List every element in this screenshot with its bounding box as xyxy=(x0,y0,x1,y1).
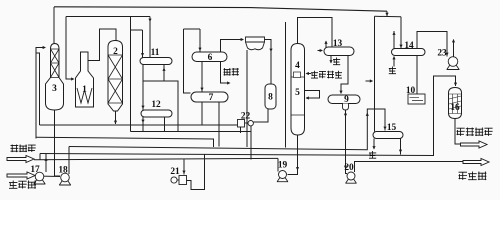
svg-text:21: 21 xyxy=(170,167,180,177)
wire column 5 bottom to pump 19 xyxy=(288,135,298,175)
wire pump 23 discharge xyxy=(453,40,455,57)
wire pump 19 discharge xyxy=(277,160,279,171)
arrowhead into exchanger 11 top xyxy=(141,53,144,56)
arrowhead steam into column xyxy=(306,72,309,75)
svg-text:11: 11 xyxy=(151,48,160,58)
text 蜡出油 xyxy=(459,172,487,181)
furnace 1 (flask with coil) xyxy=(76,52,94,107)
wire waste gas branch xyxy=(221,62,230,84)
wire raw wax suction manifold xyxy=(35,175,60,178)
wire filter 16 outlet to product xyxy=(455,118,461,144)
wire main top line from column 3 overhead xyxy=(54,7,387,11)
text 汽提蒸汽 xyxy=(311,71,342,79)
wire header y131.5 xyxy=(131,131,252,133)
svg-text:1: 1 xyxy=(82,85,87,95)
hollow arrow make-up hydrogen inlet xyxy=(7,156,34,163)
wire drum 13 to drum 9 xyxy=(341,56,348,94)
wire riser from exchanger 11 to y16.5 xyxy=(149,17,151,58)
arrowhead drum 14 vent xyxy=(392,32,395,35)
arrowhead into drum 6 xyxy=(198,48,201,51)
svg-text:20: 20 xyxy=(344,163,354,173)
wire furnace 1 to reactor 2 transfer xyxy=(88,29,116,61)
vessel 8 xyxy=(265,84,276,109)
wire stripping steam inlet xyxy=(307,73,312,75)
arrowhead water into 14 xyxy=(392,56,395,59)
clay filter 16 xyxy=(449,88,462,119)
wire exchanger 12 bottom drop x143 xyxy=(142,117,144,132)
svg-text:22: 22 xyxy=(241,112,251,122)
wire reactor 2 bottom outlet xyxy=(115,111,117,124)
svg-text:16: 16 xyxy=(450,103,460,113)
text 水 below drum 14 xyxy=(389,67,396,75)
arrowhead drum 13 vent xyxy=(324,41,327,44)
arrowhead up on loop x367 xyxy=(366,113,369,116)
wire pump 20 discharge to distillate xyxy=(355,162,464,173)
svg-text:14: 14 xyxy=(404,41,414,51)
arrowhead into pump 23 xyxy=(445,53,448,56)
arrowhead into reactor 2 xyxy=(114,40,117,43)
svg-text:19: 19 xyxy=(278,161,288,171)
stripper column 4/5 xyxy=(291,44,305,136)
wire drum 13 left inlet stub xyxy=(318,50,323,52)
arrowhead down on x387 drop xyxy=(385,13,388,16)
arrowhead on drum 9 drop xyxy=(344,114,347,117)
arrowhead into water separator 15 xyxy=(383,127,386,130)
text 废气 xyxy=(224,68,239,76)
wire feed branch x39.5 xyxy=(36,53,40,125)
arrowhead into drum 13 xyxy=(320,49,323,52)
drum 13 xyxy=(324,47,354,56)
wire drop to water separator 15 xyxy=(374,16,376,131)
wire catchpot bottom drop xyxy=(246,50,248,147)
drum 9 xyxy=(328,95,360,104)
arrowhead water below 15 xyxy=(372,146,375,149)
arrowhead pump 17 riser xyxy=(44,158,47,161)
wire exchanger 11 bottom stub x164 xyxy=(163,65,165,82)
wire drum 9 boot drop to pump 20 xyxy=(346,110,348,174)
wire header y125 xyxy=(40,124,240,126)
arrowhead into column 3 xyxy=(43,46,46,49)
svg-text:6: 6 xyxy=(208,53,213,63)
wire preheat line V1-HX11 y16.5 xyxy=(66,16,150,18)
wire long vertical x285.5 xyxy=(285,22,287,148)
arrowhead side loop into column xyxy=(306,96,309,99)
hollow arrow distillate oil outlet xyxy=(463,159,489,166)
wire product header B xyxy=(40,76,456,156)
wire stub into water line xyxy=(366,80,373,82)
wire drum 14 loop to pump 23 xyxy=(417,32,447,57)
drum 7 xyxy=(191,92,228,102)
pump 23 xyxy=(447,57,460,70)
wire column 3 overhead riser xyxy=(53,7,55,44)
arrowhead into valve 21 xyxy=(182,171,185,174)
arrowhead waste gas outlet xyxy=(227,81,230,84)
valve 22 (letdown) xyxy=(238,120,254,128)
pump 17 xyxy=(34,172,46,184)
wire loop over exchanger 11 xyxy=(130,17,132,31)
svg-text:17: 17 xyxy=(30,165,40,175)
wire drum 7 bottom drop xyxy=(218,102,220,147)
drum 9 water boot xyxy=(343,104,349,111)
wire drop into separator 14 xyxy=(400,17,402,48)
text 补充氢 xyxy=(11,145,36,153)
wire header B left elbow to H2 line xyxy=(39,154,41,160)
text 原料蜡 xyxy=(9,181,36,189)
arrowhead into drum 7 xyxy=(200,88,203,91)
pump 19 xyxy=(277,171,288,182)
arrowhead into filter 16 xyxy=(454,83,457,86)
arrowhead up into exchanger 11 bottom xyxy=(162,68,165,71)
arrowhead on riser x150 xyxy=(148,19,151,22)
wire exchanger 11 to exchanger 12 xyxy=(142,65,144,111)
wire left leg down to header y131 xyxy=(130,30,132,132)
exchanger 11 xyxy=(140,58,172,65)
wire drum 7 bottom drop2 xyxy=(201,102,203,125)
arrowhead pump 23 discharge xyxy=(452,39,455,42)
wire drum 14 vent xyxy=(393,31,395,49)
pump 18 xyxy=(59,173,71,185)
wire recycle into column 3 xyxy=(36,48,45,139)
wire catchpot outlet to vessel 8 xyxy=(265,40,272,84)
svg-text:4: 4 xyxy=(295,61,300,71)
reactor 2 column xyxy=(108,41,123,112)
hollow arrow finished wax outlet xyxy=(461,141,488,148)
svg-text:3: 3 xyxy=(52,84,57,94)
arrowhead into drum 9 xyxy=(339,91,342,94)
text 水 below separator 15 xyxy=(369,151,376,159)
wire top line drop into cold line at x387 xyxy=(386,11,388,16)
wire pump 18 discharge riser xyxy=(68,147,70,175)
drum 14 xyxy=(392,49,426,56)
wire header y146.5 to water sep 15 xyxy=(69,109,385,150)
arrowhead into pump 19 xyxy=(296,167,299,170)
wire hydrogen header y159.5 xyxy=(34,158,278,159)
arrowhead into furnace 1 xyxy=(71,77,74,80)
arrowhead into separator 14 xyxy=(399,45,402,48)
arrowhead drum 13 drain xyxy=(329,60,332,63)
arrowhead leaving exchanger 12 xyxy=(141,120,144,123)
wire valve 22 stem xyxy=(240,127,242,133)
svg-text:13: 13 xyxy=(333,39,343,49)
wire valve 21 return to header B xyxy=(187,154,205,190)
valve 21 (letdown) xyxy=(171,176,187,185)
wire water drain below 15 xyxy=(373,139,375,150)
wire drop into furnace 1 xyxy=(66,17,74,80)
wire cold separator header y16 xyxy=(375,15,402,18)
wire exchanger 11 bottom loop xyxy=(143,81,178,132)
wire column 4 overhead to drum 13 xyxy=(298,18,333,48)
filter box 10 xyxy=(408,94,425,104)
arrowhead into exchanger 12 top xyxy=(141,106,144,109)
text 成品石蜡 xyxy=(457,128,493,137)
wire wash water into drum 14 xyxy=(393,57,395,67)
svg-text:12: 12 xyxy=(151,100,161,110)
svg-text:15: 15 xyxy=(387,123,397,133)
wire loop top over exchanger 11 xyxy=(131,29,143,31)
svg-text:5: 5 xyxy=(295,88,300,98)
drum 6 xyxy=(192,52,227,62)
wire drum 6 to drum 7 xyxy=(201,62,203,92)
wire drum 14 to filter box 10 xyxy=(416,56,418,95)
arrowhead into vessel 8 xyxy=(269,49,272,52)
svg-text:2: 2 xyxy=(113,47,118,57)
column 3 reactor xyxy=(46,44,64,111)
hollow arrow raw wax inlet xyxy=(7,172,35,179)
svg-text:23: 23 xyxy=(437,49,447,59)
svg-text:7: 7 xyxy=(209,93,214,103)
wire column 3 bottom to pump 18 xyxy=(55,110,61,176)
wire drum 13 water drain xyxy=(330,56,332,64)
wire loop right leg into exchanger 11 xyxy=(142,30,144,58)
pump 20 xyxy=(345,172,356,183)
wire drum 6 riser to catchpot xyxy=(221,40,244,53)
arrowhead into catchpot xyxy=(241,38,244,41)
wire column 5 side loop xyxy=(305,91,320,99)
exchanger 12 xyxy=(141,110,172,117)
wire loop over drum 6 xyxy=(184,28,201,30)
catchpot vessel xyxy=(246,37,265,50)
wire water separator 15 outlet to header B xyxy=(400,139,402,155)
wire vessel 8 bottom jog xyxy=(251,109,268,160)
svg-text:10: 10 xyxy=(406,86,416,96)
separator 15 xyxy=(373,132,403,139)
arrowhead reactor 2 outlet xyxy=(114,121,117,124)
text 水 below drum 13 xyxy=(333,58,340,66)
wire hydrogen header drop to pump 19 xyxy=(277,158,279,171)
arrowhead into pump 20 xyxy=(344,166,347,169)
wire header y138.5 recycle xyxy=(36,137,214,147)
wire loop left leg to drum 7 xyxy=(184,29,191,93)
arrowhead stub into water line xyxy=(370,79,373,82)
svg-text:8: 8 xyxy=(268,93,273,103)
wire drum 6 feed xyxy=(199,29,201,52)
wire exchanger 12 bottom drop x164 xyxy=(164,117,166,132)
arrowhead 15 outlet xyxy=(399,150,402,153)
wire valve 21 feed xyxy=(183,160,185,175)
wire pump 17 discharge riser xyxy=(45,154,47,173)
svg-text:18: 18 xyxy=(58,166,68,176)
wire drum 13 vent xyxy=(325,41,327,48)
